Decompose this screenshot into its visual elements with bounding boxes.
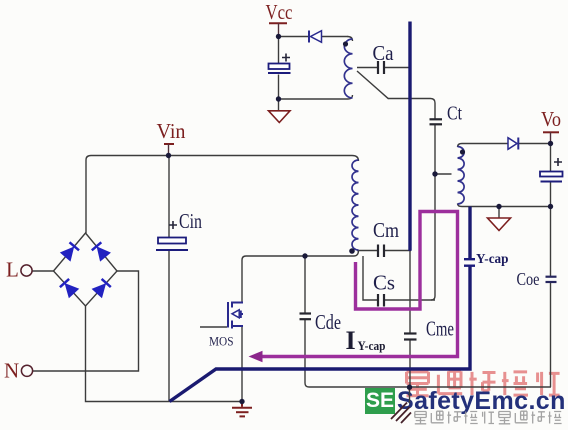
capacitor Ca: [377, 61, 379, 74]
svg-text:Cin: Cin: [179, 209, 202, 233]
wire Ct column: [388, 99, 435, 120]
node sec-gnd: [496, 204, 501, 209]
plus Vo cap: [554, 158, 562, 166]
svg-text:L: L: [6, 258, 19, 282]
phase dot aux: [343, 41, 348, 46]
Vin supply tick: [164, 143, 174, 145]
wire Cm row: primary bottom to thick line: [357, 250, 377, 252]
watermark SafetyEmc.cn: [397, 387, 566, 416]
wire Vin rail: [86, 156, 359, 234]
bridge diamond wires: [54, 233, 118, 306]
node Ct-sec: [432, 171, 437, 176]
transistor MOS: [228, 302, 243, 329]
wire secondary top to Vo: [458, 144, 509, 148]
svg-text:Cs: Cs: [373, 271, 395, 295]
capacitor Y-cap: [464, 258, 475, 260]
svg-text:Vin: Vin: [157, 119, 186, 143]
capacitor Cs: [377, 294, 379, 307]
capacitor Coe: [546, 276, 557, 278]
wire MOS source down: [241, 326, 243, 402]
purple current path loop: [260, 212, 458, 357]
diode output rectifier (points right): [508, 138, 517, 150]
transformer secondary winding: [458, 147, 465, 205]
svg-text:I: I: [346, 326, 356, 355]
ground secondary (open triangle): [488, 218, 511, 231]
capacitor Cin (electrolytic): [158, 238, 186, 244]
transformer aux winding: [344, 39, 352, 98]
terminal L circle: [21, 265, 32, 276]
bridge diode D2 (N to +): [97, 247, 110, 261]
ground chassis (slashes): [391, 403, 411, 424]
wire Cin branch: [168, 156, 170, 238]
svg-text:Y-cap: Y-cap: [476, 251, 509, 266]
capacitor Vcc (electrolytic): [269, 64, 290, 70]
wire secondary bottom row: [458, 204, 551, 207]
purple arrow head: [249, 351, 263, 362]
svg-text:Vcc: Vcc: [266, 0, 293, 24]
ground Vcc (open triangle): [269, 111, 291, 123]
wire bridge bottom to ground rail: [86, 306, 243, 402]
svg-text:Ca: Ca: [373, 41, 395, 65]
svg-text:Vo: Vo: [541, 107, 561, 131]
bridge diode D1 (L to +): [61, 247, 74, 260]
capacitor Ct: [430, 118, 443, 120]
bridge diode D3 (- to L): [65, 284, 78, 297]
node Vo-cap-bottom: [548, 204, 553, 209]
node Vo: [548, 141, 553, 146]
wire Vcc cap branch: [278, 37, 280, 64]
svg-text:Coe: Coe: [517, 269, 540, 289]
terminal N circle: [21, 365, 32, 376]
node bottom-earth: [407, 385, 412, 390]
wire Vcc row: [279, 36, 309, 38]
wire aux diagonal tap to Ct: [357, 67, 377, 69]
svg-text:N: N: [4, 359, 19, 383]
node Vin: [166, 153, 171, 158]
wire Cme branch: [409, 300, 411, 333]
wire Coe bottom: [550, 282, 552, 387]
plus Vcc cap: [282, 54, 290, 62]
svg-text:Cme: Cme: [426, 317, 454, 341]
node MOS-gnd: [239, 399, 244, 404]
wire aux bottom: [279, 95, 353, 99]
wire L input to bridge: [33, 270, 54, 272]
ground earth at MOS source: [232, 402, 252, 417]
transformer primary winding: [352, 160, 358, 250]
wire N input to bridge right vertex: [33, 271, 139, 371]
svg-text:Y-cap: Y-cap: [358, 339, 386, 353]
thick line top vertical: [408, 22, 411, 251]
capacitor Cde: [300, 312, 312, 314]
node Vcc: [276, 34, 281, 39]
wire secondary ground stub: [498, 207, 500, 219]
svg-text:MOS: MOS: [209, 334, 234, 349]
wire Vo cap branch: [550, 144, 552, 172]
wire MOS gate stub: [200, 326, 227, 328]
Vcc supply tick: [269, 22, 287, 24]
phase dot secondary: [460, 149, 465, 154]
svg-text:Cm: Cm: [373, 218, 399, 242]
wire MOS drain to primary: [242, 250, 359, 303]
capacitor Vo output (electrolytic): [540, 172, 563, 177]
wire Cs loop: [363, 256, 377, 300]
node Cde-top: [302, 253, 307, 258]
node Vcc-gnd: [276, 96, 281, 101]
Vo supply tick: [543, 131, 559, 133]
bridge diode D4 (- to N): [93, 284, 106, 297]
svg-text:Cde: Cde: [315, 310, 341, 334]
phase dot primary: [349, 248, 355, 254]
diode aux rectifier (points left): [311, 31, 322, 43]
watermark SE green box: [365, 388, 395, 414]
wire Cde branch: [304, 256, 306, 313]
thick line Y-cap vertical upper: [468, 207, 471, 259]
capacitor Cme: [404, 332, 417, 334]
thick line Y-cap vertical lower + return to rail: [170, 267, 471, 402]
capacitor Cm: [377, 245, 379, 258]
wire Ct to secondary tap: [435, 173, 452, 175]
svg-text:Ct: Ct: [447, 103, 462, 125]
plus Cin: [169, 221, 177, 229]
wire chassis stub: [409, 387, 411, 403]
